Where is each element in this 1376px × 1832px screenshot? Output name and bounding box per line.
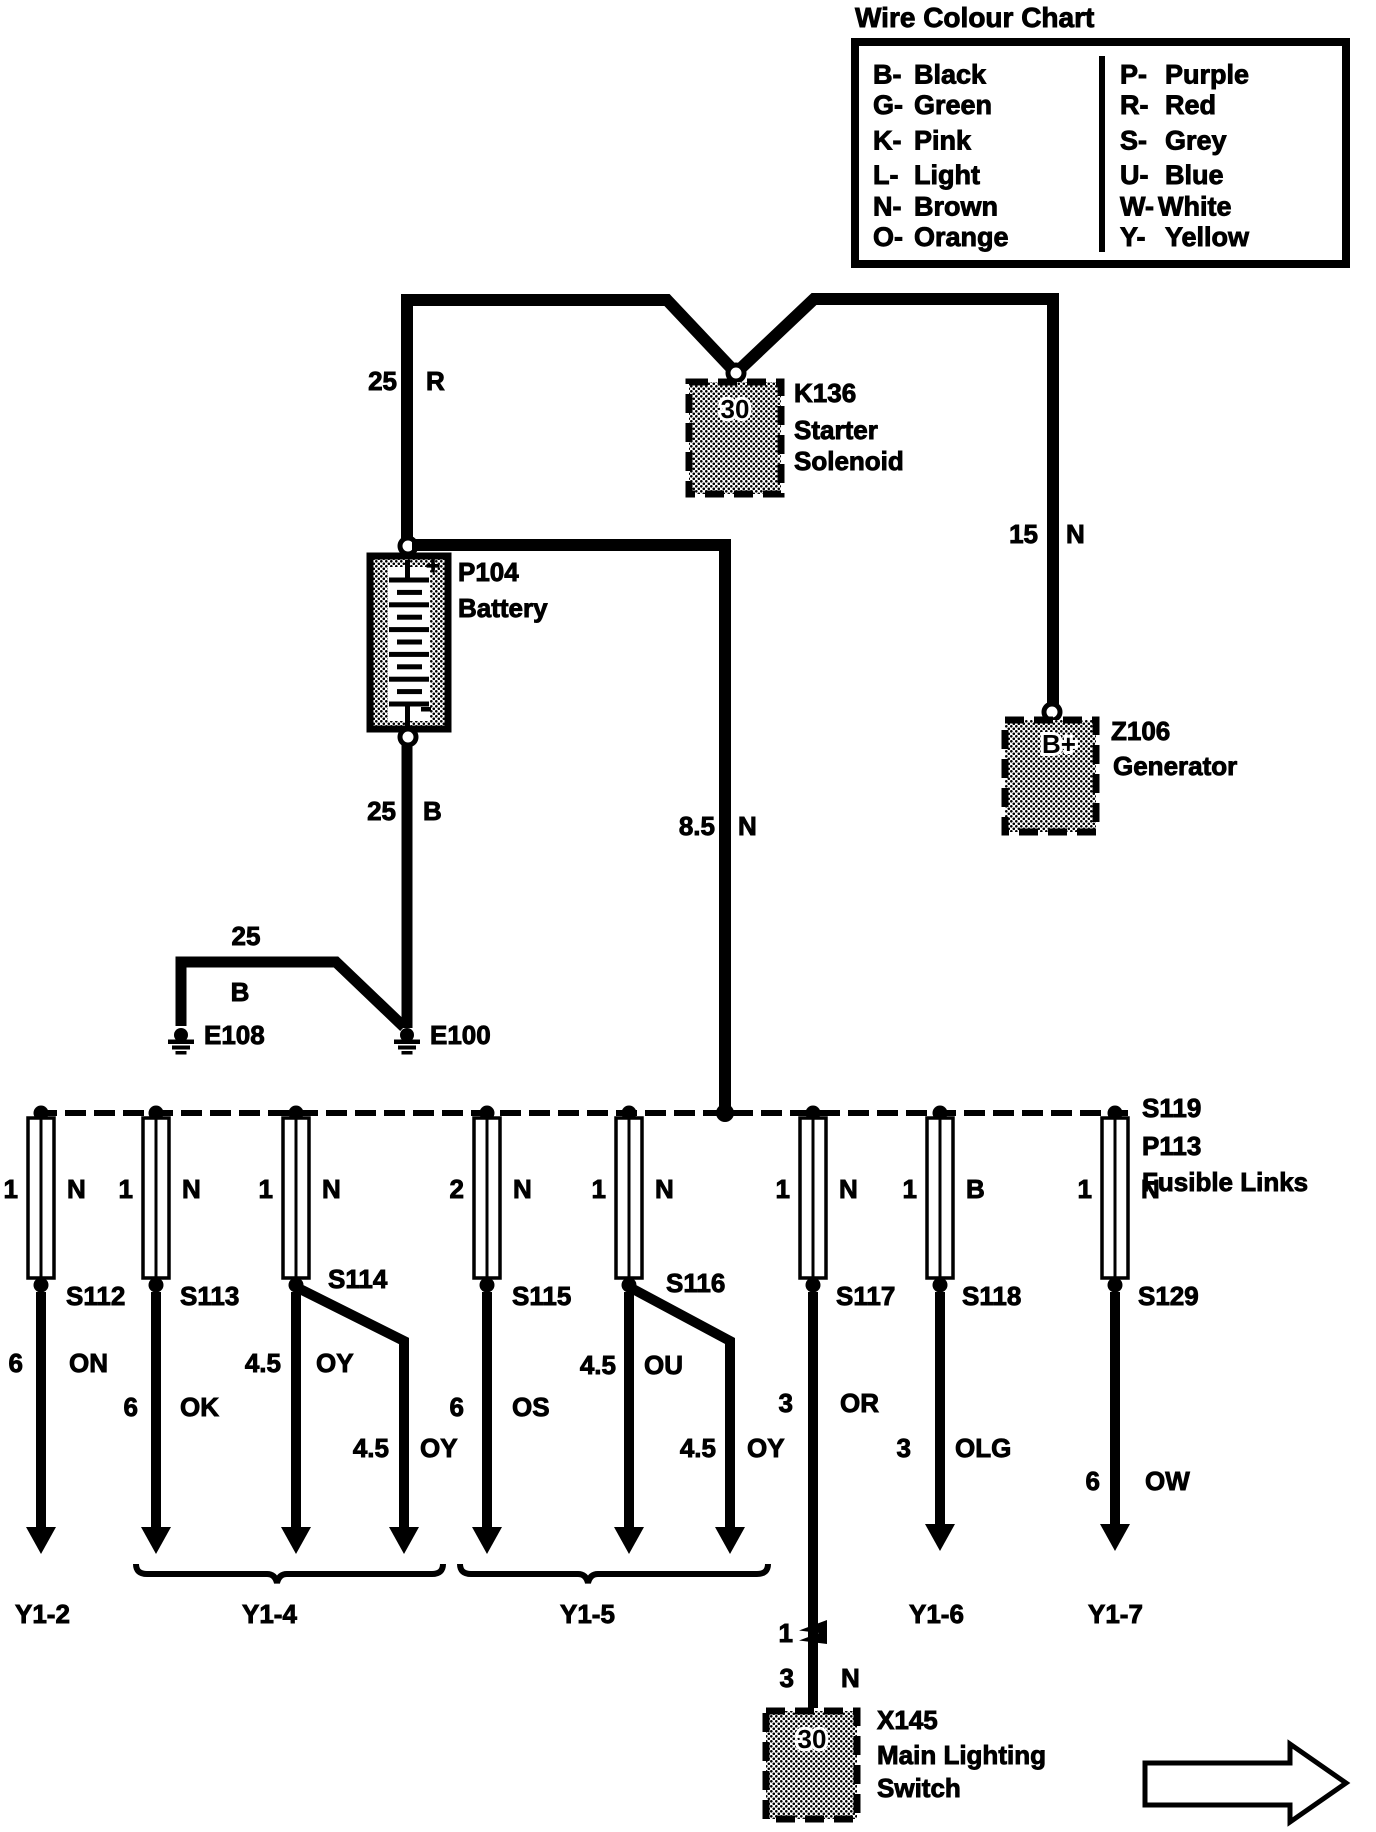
wire: S114 output 4.5 OY (left) to Y1-4 [281,1292,311,1554]
svg-text:Grey: Grey [1165,126,1227,156]
svg-text:Blue: Blue [1165,160,1224,190]
bus S119: dashed supply line [36,1110,1128,1116]
svg-text:1: 1 [776,1174,790,1204]
svg-text:OR: OR [840,1388,879,1418]
svg-text:4.5: 4.5 [353,1433,389,1463]
svg-text:Orange: Orange [914,222,1009,252]
svg-text:25: 25 [368,366,397,396]
wire: S115 output 6 OS to Y1-5 [472,1292,502,1554]
svg-text:OU: OU [644,1350,683,1380]
svg-text:B: B [231,977,250,1007]
wire: S113 output 6 OK to Y1-4 [141,1292,171,1554]
svg-text:1: 1 [259,1174,273,1204]
svg-text:8.5: 8.5 [679,811,715,841]
svg-text:Y1-5: Y1-5 [560,1599,615,1629]
svg-text:6: 6 [9,1348,23,1378]
svg-text:Solenoid: Solenoid [794,446,904,476]
fusible link S118 [927,1106,953,1293]
svg-text:R: R [426,366,445,396]
continuation arrow (diagram continues) [1145,1744,1346,1822]
svg-text:Wire Colour Chart: Wire Colour Chart [855,2,1094,33]
label P104 Battery [458,557,548,623]
fusible link S114 [283,1106,309,1293]
svg-text:B+: B+ [1042,729,1076,759]
junction dot on bus S119 [716,1104,734,1122]
svg-text:25: 25 [367,796,396,826]
svg-text:15: 15 [1009,519,1038,549]
svg-text:S-: S- [1120,126,1147,156]
wire: battery negative down to ground E100 [402,744,413,1028]
component P104 battery [370,553,448,729]
svg-text:3: 3 [779,1388,793,1418]
svg-text:Starter: Starter [794,415,878,445]
fusible link S112 [28,1106,54,1293]
label X145 Main Lighting Switch [877,1705,1046,1803]
svg-text:Brown: Brown [914,192,998,222]
legend box [855,42,1346,264]
svg-text:S119: S119 [1142,1093,1201,1123]
svg-text:N: N [655,1174,674,1204]
wire: S117 output 3 OR down to X145 [808,1292,818,1708]
svg-text:OY: OY [316,1348,354,1378]
component K136 starter solenoid box (terminal 30) [689,382,781,494]
svg-text:Light: Light [914,160,980,190]
fusible link S113 [143,1106,169,1293]
svg-text:Generator: Generator [1113,751,1237,781]
svg-text:Y1-4: Y1-4 [242,1599,297,1629]
svg-text:N: N [841,1663,860,1693]
svg-text:2: 2 [450,1174,464,1204]
svg-text:B: B [423,796,442,826]
svg-text:Red: Red [1165,90,1216,120]
svg-text:1: 1 [4,1174,18,1204]
svg-text:E100: E100 [430,1020,491,1050]
in-line connector on S117 wire [799,1620,827,1644]
svg-text:OLG: OLG [955,1433,1011,1463]
svg-text:Y1-6: Y1-6 [909,1599,964,1629]
svg-text:OY: OY [747,1433,785,1463]
svg-text:OK: OK [180,1392,219,1422]
svg-text:Green: Green [914,90,992,120]
svg-text:S118: S118 [962,1281,1021,1311]
svg-text:N: N [322,1174,341,1204]
svg-text:Z106: Z106 [1111,716,1170,746]
svg-text:N: N [839,1174,858,1204]
svg-text:4.5: 4.5 [580,1350,616,1380]
fusible link S115 [474,1106,500,1293]
svg-text:Battery: Battery [458,593,548,623]
svg-text:P104: P104 [458,557,519,587]
svg-text:6: 6 [450,1392,464,1422]
svg-text:O-: O- [873,222,903,252]
svg-text:P-: P- [1120,60,1147,90]
svg-text:3: 3 [780,1663,794,1693]
svg-text:1: 1 [779,1618,793,1648]
wire: branch to ground E108 [181,962,404,1027]
svg-text:OY: OY [420,1433,458,1463]
wire: starter solenoid to generator rail [738,299,1053,708]
svg-text:1: 1 [592,1174,606,1204]
svg-text:S114: S114 [328,1264,388,1294]
svg-text:1: 1 [1078,1174,1092,1204]
wire: S116 output 4.5 OU to Y1-5 [614,1292,644,1554]
svg-text:X145: X145 [877,1705,938,1735]
wire: S112 output 6 ON to Y1-2 [26,1292,56,1554]
svg-text:+: + [426,553,440,580]
wire: battery positive to top rail and starter solenoid [407,300,734,550]
svg-text:Black: Black [914,60,987,90]
svg-text:30: 30 [721,394,750,424]
svg-text:S116: S116 [666,1268,725,1298]
fusible link S117 [800,1106,826,1293]
svg-text:B: B [966,1174,985,1204]
label Z106 Generator [1111,716,1237,781]
brace for Y1-4 group [136,1564,443,1583]
component X145 main lighting switch box (terminal 30) [766,1711,857,1819]
svg-text:Y-: Y- [1120,222,1146,252]
wire: S129 output 6 OW to Y1-7 [1100,1292,1130,1551]
svg-text:Y1-7: Y1-7 [1088,1599,1143,1629]
label K136 Starter Solenoid [794,378,904,476]
svg-text:S112: S112 [66,1281,125,1311]
svg-text:N: N [182,1174,201,1204]
svg-text:S115: S115 [512,1281,571,1311]
wire: battery positive junction to fusible link bus [412,545,725,1110]
svg-text:6: 6 [124,1392,138,1422]
svg-text:Pink: Pink [914,126,972,156]
svg-text:S129: S129 [1138,1281,1199,1311]
svg-text:Fusible Links: Fusible Links [1142,1167,1308,1197]
svg-text:ON: ON [69,1348,108,1378]
svg-text:6: 6 [1086,1466,1100,1496]
wire: S116 output 4.5 OY (right branch) to Y1-5 [633,1289,745,1554]
ground E108 [168,1028,194,1055]
svg-text:S117: S117 [836,1281,895,1311]
svg-text:OW: OW [1145,1466,1190,1496]
svg-text:OS: OS [512,1392,550,1422]
svg-text:Yellow: Yellow [1165,222,1250,252]
fusible link S129 [1102,1106,1128,1293]
svg-text:Switch: Switch [877,1773,961,1803]
svg-text:Main Lighting: Main Lighting [877,1740,1046,1770]
svg-text:N: N [513,1174,532,1204]
svg-text:S113: S113 [180,1281,239,1311]
svg-text:G-: G- [873,90,903,120]
svg-text:N: N [738,811,757,841]
svg-text:N-: N- [873,192,902,222]
brace for Y1-5 group [460,1564,768,1583]
svg-text:1: 1 [903,1174,917,1204]
svg-text:3: 3 [897,1433,911,1463]
svg-text:White: White [1158,192,1232,222]
svg-text:B-: B- [873,60,902,90]
svg-text:4.5: 4.5 [245,1348,281,1378]
svg-text:W-: W- [1120,192,1154,222]
svg-text:25: 25 [232,921,261,951]
node: terminal circle at battery - [400,729,416,745]
svg-text:N: N [1141,1174,1160,1204]
node: terminal circle at battery + [400,538,416,554]
svg-text:30: 30 [798,1724,827,1754]
fusible link S116 [616,1106,642,1293]
svg-text:U-: U- [1120,160,1149,190]
node: terminal circle at generator B+ [1044,704,1060,720]
svg-text:R-: R- [1120,90,1149,120]
svg-text:Purple: Purple [1165,60,1249,90]
svg-text:1: 1 [119,1174,133,1204]
svg-text:N: N [67,1174,86,1204]
svg-text:K136: K136 [794,378,856,408]
svg-text:L-: L- [873,160,898,190]
ground E100 [394,1028,420,1055]
node: terminal circle at K136 [728,365,744,381]
component Z106 generator box (terminal B+) [1005,720,1096,832]
wire: S118 output 3 OLG to Y1-6 [925,1292,955,1551]
wire: S114 output 4.5 OY (right branch) to Y1-4 [300,1289,419,1554]
svg-text:P113: P113 [1142,1131,1201,1161]
svg-text:Y1-2: Y1-2 [15,1599,70,1629]
svg-text:4.5: 4.5 [680,1433,716,1463]
label S119 P113 Fusible Links [1142,1093,1308,1197]
svg-text:K-: K- [873,126,902,156]
svg-text:N: N [1066,519,1085,549]
svg-text:E108: E108 [204,1020,265,1050]
legend divider [1099,56,1105,252]
